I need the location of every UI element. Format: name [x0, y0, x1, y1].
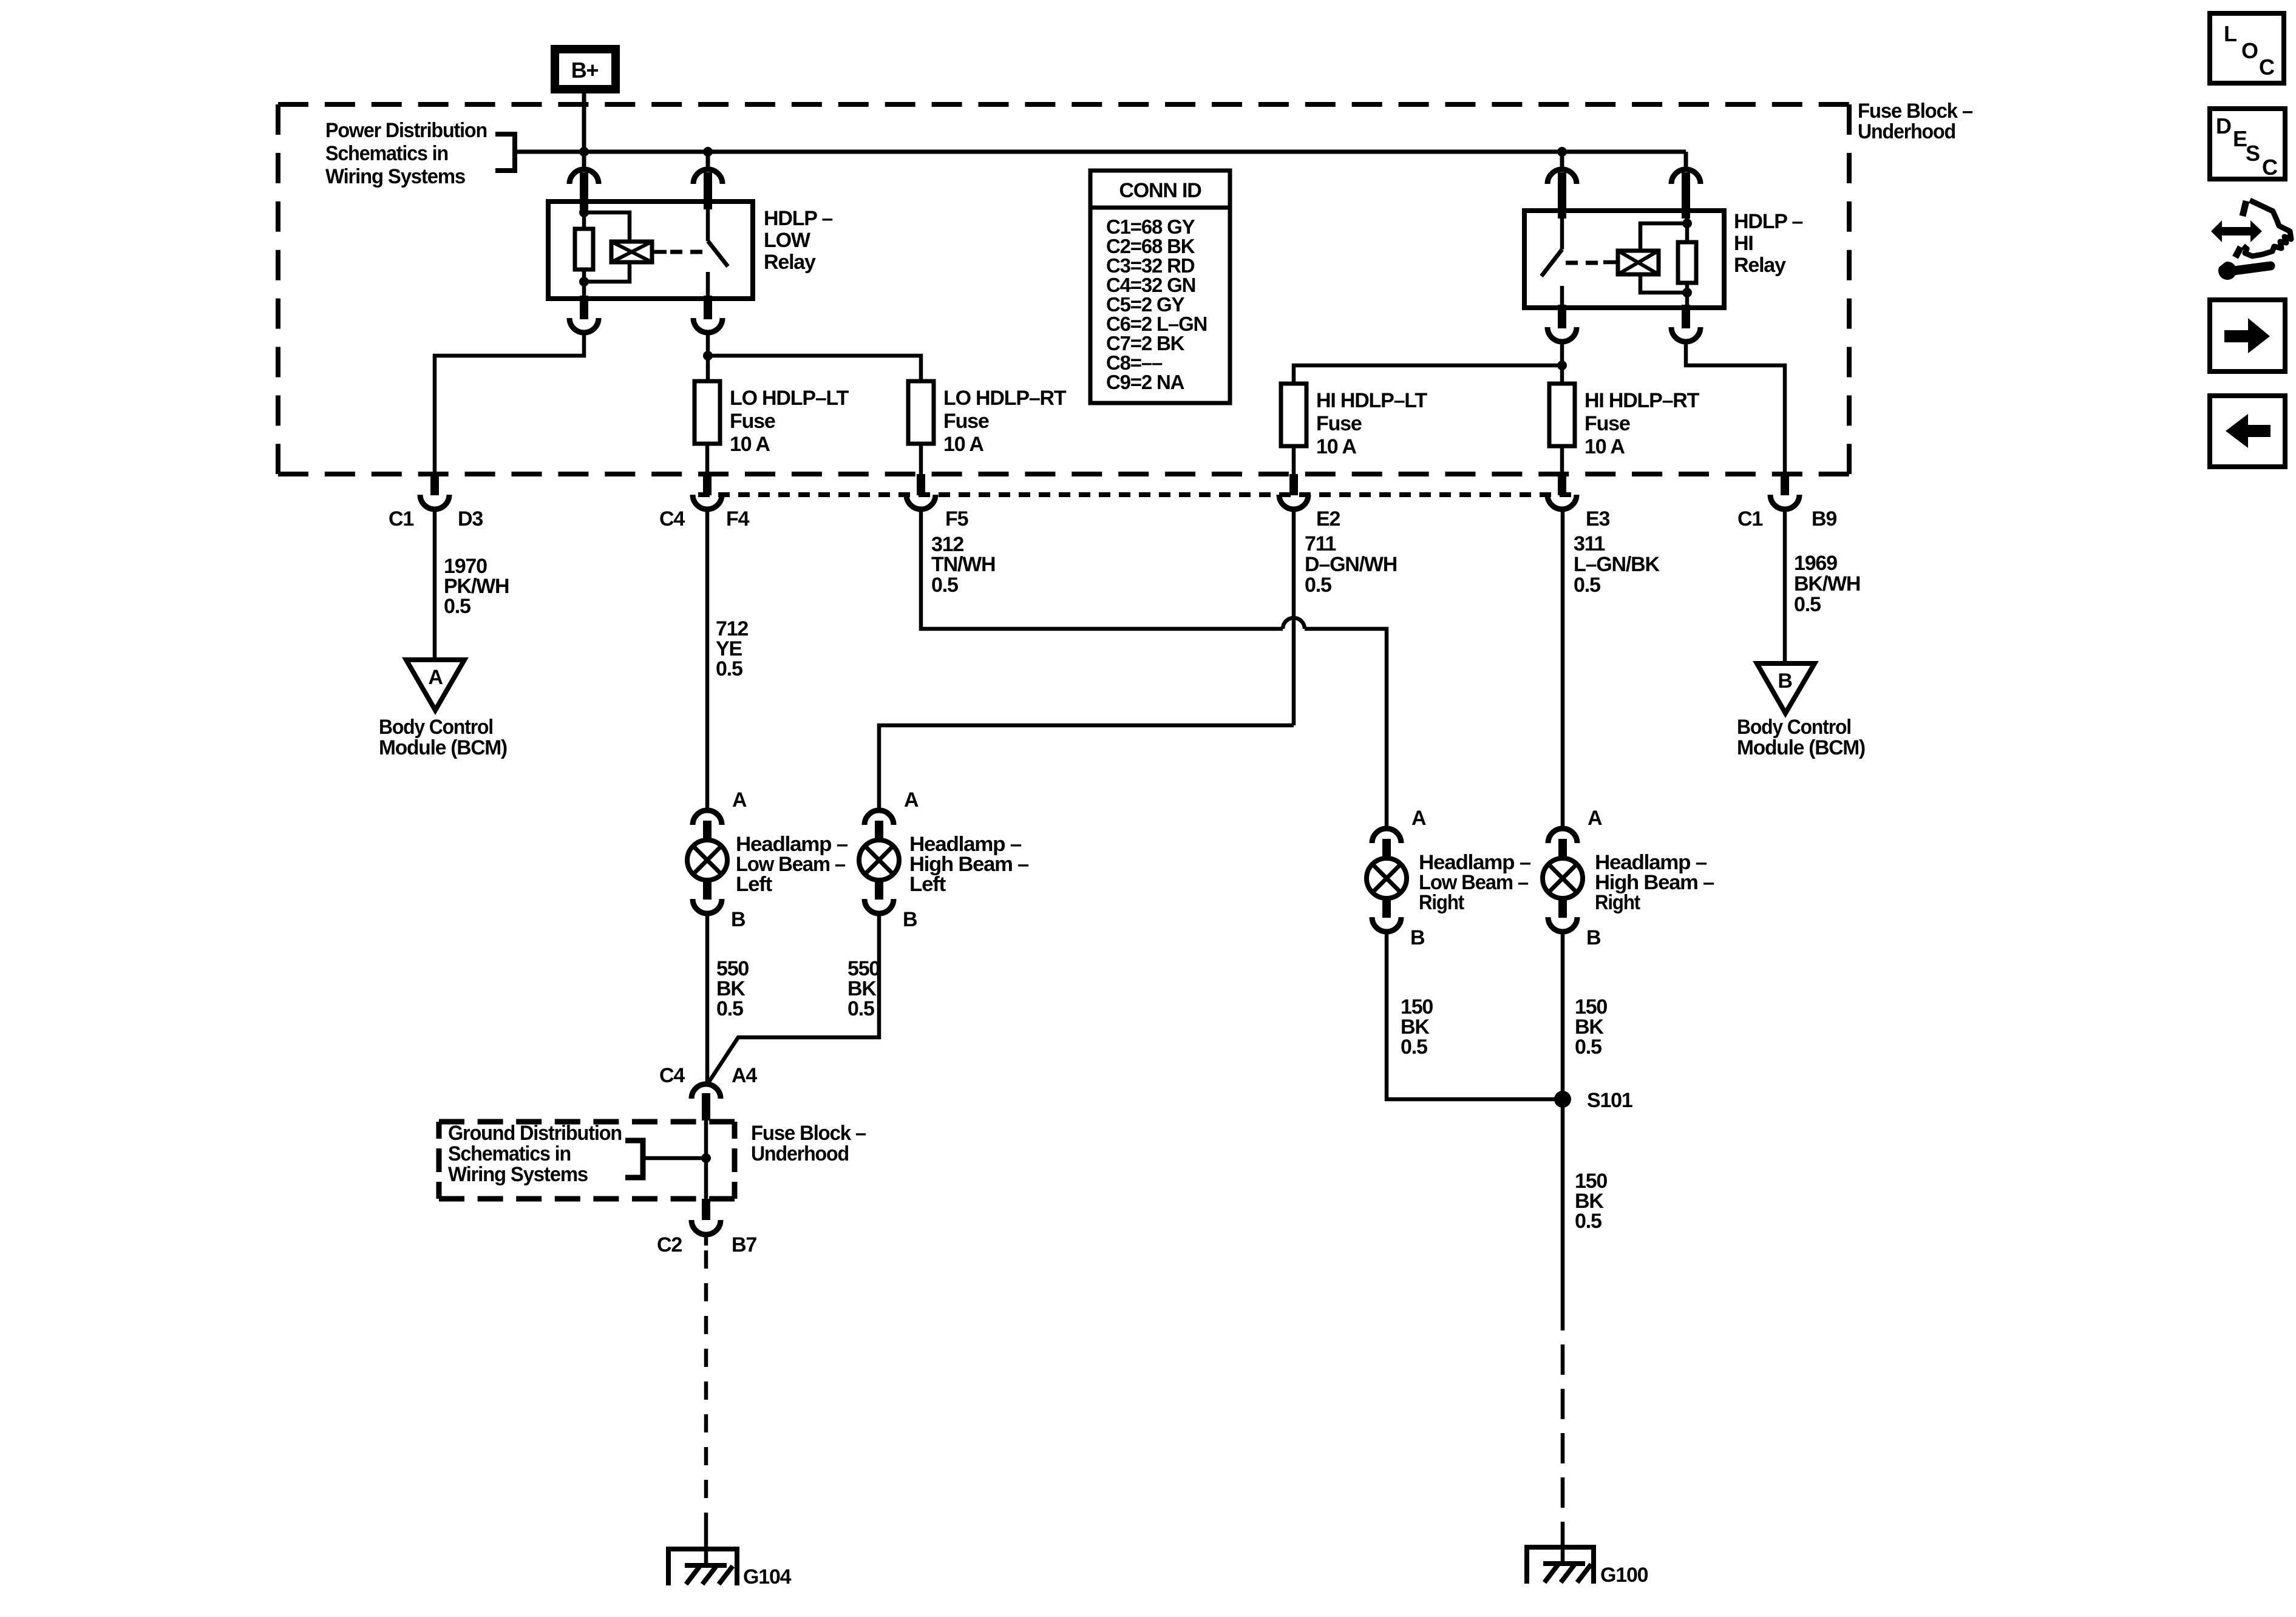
fuse HI HDLP-LT 10A: [1281, 384, 1427, 458]
svg-text:E3: E3: [1586, 507, 1609, 531]
svg-text:B: B: [1778, 670, 1792, 693]
svg-text:C2: C2: [657, 1233, 682, 1256]
splice S101: [1554, 1091, 1571, 1108]
svg-text:Fuse: Fuse: [1584, 412, 1630, 435]
wire label 550 BK 0.5 left: [716, 957, 749, 1020]
resistor in HI relay: [1678, 242, 1696, 283]
svg-text:G100: G100: [1600, 1564, 1648, 1587]
svg-text:D: D: [2216, 114, 2231, 138]
node junction B+ wire: [579, 147, 589, 157]
wire LOW relay coil pin to C1/D3: [435, 333, 584, 474]
svg-text:A: A: [904, 788, 919, 812]
ground G100: [1527, 1547, 1594, 1584]
svg-text:LO HDLP–LT: LO HDLP–LT: [730, 387, 849, 410]
DESC nav icon: [2210, 109, 2285, 180]
HI relay coil-side pin wire: [1685, 211, 1690, 242]
svg-text:10 A: 10 A: [1316, 435, 1356, 458]
CONN ID table: [1090, 171, 1230, 403]
svg-text:Schematics in: Schematics in: [325, 142, 448, 165]
svg-text:B: B: [731, 908, 746, 931]
label HDLP-HI Relay: [1734, 210, 1802, 277]
svg-text:HI HDLP–LT: HI HDLP–LT: [1316, 389, 1427, 412]
label High Beam –: [909, 833, 1028, 896]
wire high beam right B down: [1561, 932, 1565, 1300]
svg-text:HI HDLP–RT: HI HDLP–RT: [1584, 389, 1700, 412]
svg-text:0.5: 0.5: [1575, 1210, 1601, 1233]
dotted connector row line: [698, 492, 1572, 497]
off-page connector B: [1757, 663, 1815, 713]
svg-text:0.5: 0.5: [931, 574, 958, 597]
svg-text:0.5: 0.5: [1305, 574, 1331, 597]
svg-text:0.5: 0.5: [716, 657, 742, 680]
wire 312 F5 down and right: [921, 508, 1283, 629]
switch in HI relay: [1541, 211, 1562, 308]
svg-text:10 A: 10 A: [1584, 435, 1625, 458]
svg-text:F5: F5: [945, 507, 968, 531]
label High Beam –: [1595, 851, 1714, 914]
node junction HI relay switch feed: [1557, 147, 1567, 157]
headlamp high beam right: [1543, 829, 1583, 932]
connector pin: [1279, 474, 1308, 509]
svg-text:Power Distribution: Power Distribution: [325, 119, 487, 142]
node: [579, 277, 589, 286]
svg-text:Fuse: Fuse: [943, 410, 989, 433]
off-page connector A: [406, 660, 464, 710]
node: [1557, 361, 1567, 370]
wire low beam right B to splice: [1387, 932, 1563, 1099]
svg-text:Right: Right: [1595, 891, 1640, 914]
svg-text:S: S: [2246, 141, 2260, 166]
svg-text:Body Control: Body Control: [379, 716, 493, 739]
svg-text:Left: Left: [736, 873, 772, 896]
wire to BCM A: [433, 508, 437, 660]
svg-text:Module (BCM): Module (BCM): [379, 736, 507, 759]
svg-text:HDLP –: HDLP –: [764, 207, 832, 230]
svg-text:L–GN/BK: L–GN/BK: [1574, 553, 1660, 576]
svg-text:0.5: 0.5: [1575, 1036, 1601, 1059]
wire hop over 711: [1283, 618, 1305, 629]
relay coil HI (box with X): [1618, 251, 1659, 274]
svg-text:Body Control: Body Control: [1737, 716, 1851, 739]
wire 711 E2 down: [1292, 508, 1296, 725]
wire label 150 BK 0.5 low right: [1401, 995, 1433, 1059]
svg-text:D3: D3: [458, 507, 483, 531]
label Power Distribution Schematics in Wiring Systems: [325, 119, 487, 188]
svg-text:G104: G104: [743, 1565, 792, 1588]
B+ bus wire: [515, 150, 1686, 154]
label Ground Distribution Schematics in Wiring Systems: [448, 1122, 622, 1186]
svg-text:LO HDLP–RT: LO HDLP–RT: [943, 387, 1067, 410]
wire label 1969 BK/WH 0.5: [1794, 552, 1860, 616]
wire 312 continues to low beam right: [1305, 629, 1387, 827]
fuse LO HDLP-RT 10A: [908, 381, 1067, 456]
svg-text:C: C: [2262, 155, 2278, 180]
wire label 150 BK 0.5 below splice: [1575, 1170, 1607, 1233]
svg-text:B+: B+: [571, 58, 599, 83]
svg-text:Wiring Systems: Wiring Systems: [448, 1163, 588, 1186]
svg-text:Underhood: Underhood: [751, 1142, 849, 1165]
dashed mechanical linkage: [1566, 261, 1600, 265]
svg-text:0.5: 0.5: [716, 997, 743, 1020]
wire label 311 L-GN/BK 0.5: [1574, 532, 1660, 597]
svg-text:Fuse: Fuse: [1316, 412, 1362, 435]
LOC nav icon: [2210, 13, 2284, 83]
dashed mechanical linkage: [670, 250, 704, 254]
label Fuse Block - Underhood (lower): [751, 1122, 866, 1165]
svg-text:Fuse Block –: Fuse Block –: [751, 1122, 866, 1145]
wire branch to LO HDLP-RT fuse: [708, 356, 921, 381]
svg-text:B9: B9: [1812, 507, 1836, 531]
svg-text:B: B: [1586, 926, 1601, 949]
svg-text:BK/WH: BK/WH: [1794, 572, 1860, 595]
bracket for power distribution reference: [495, 134, 515, 171]
wire coil branch: [1640, 274, 1687, 293]
svg-text:10 A: 10 A: [730, 433, 770, 456]
fuse block top connector pins: [569, 169, 599, 209]
wire LOW relay switch pin down: [706, 333, 710, 381]
svg-text:Left: Left: [909, 873, 946, 896]
svg-text:HDLP –: HDLP –: [1734, 210, 1802, 233]
wire label 1970 PK/WH 0.5: [444, 555, 509, 618]
wire coil branch: [584, 212, 630, 242]
wire label 712 YE 0.5: [716, 617, 748, 680]
svg-text:Relay: Relay: [1734, 254, 1786, 277]
label Body Control Module (BCM) left: [379, 716, 507, 759]
svg-text:Fuse Block –: Fuse Block –: [1858, 100, 1972, 123]
svg-text:B7: B7: [732, 1233, 756, 1256]
svg-text:A: A: [1588, 807, 1602, 830]
svg-text:E: E: [2233, 126, 2247, 151]
relay HDLP-LOW box: [548, 202, 753, 299]
hand with wrench nav icon: [2211, 200, 2291, 280]
node junction LOW relay switch feed: [703, 147, 713, 157]
node: [1682, 219, 1692, 228]
wire from B+ down to bus: [582, 93, 586, 169]
label Low Beam –: [736, 833, 847, 896]
fuse LO HDLP-LT 10A: [695, 381, 849, 456]
svg-text:711: 711: [1305, 532, 1336, 555]
switch in LOW relay: [708, 202, 728, 299]
svg-text:1969: 1969: [1794, 552, 1837, 575]
svg-text:Underhood: Underhood: [1858, 120, 1955, 143]
node: [1682, 288, 1692, 297]
wire low beam left B down: [705, 914, 710, 1085]
wire branch to HI HDLP-LT fuse: [1294, 365, 1562, 384]
svg-text:A: A: [428, 666, 443, 689]
svg-text:E2: E2: [1316, 507, 1340, 531]
connector pin: [1547, 474, 1577, 509]
svg-text:F4: F4: [726, 507, 750, 531]
connector pin: [906, 474, 936, 509]
connector pin: [1770, 474, 1799, 509]
wire to BCM B: [1783, 508, 1787, 663]
svg-text:Schematics in: Schematics in: [448, 1142, 571, 1165]
wire through ground fuse block: [704, 1120, 708, 1200]
svg-text:Wiring Systems: Wiring Systems: [325, 165, 465, 188]
ground G104: [668, 1549, 737, 1585]
svg-text:C4: C4: [659, 507, 685, 531]
wire HI relay switch pin down: [1560, 342, 1564, 384]
wire 311 E3 to high beam right: [1561, 508, 1565, 827]
resistor in LOW relay: [575, 229, 593, 269]
bracket ground distribution: [625, 1141, 643, 1178]
wire label 550 BK 0.5 right: [847, 957, 880, 1020]
svg-text:A: A: [732, 788, 747, 812]
node: [579, 208, 589, 217]
svg-text:C: C: [2259, 55, 2275, 80]
svg-text:B: B: [903, 908, 917, 931]
wire label 150 BK 0.5 high right: [1575, 995, 1607, 1059]
dashed wire to G104: [704, 1235, 708, 1246]
svg-text:HI: HI: [1734, 232, 1753, 255]
fuse block underhood dashed box: [278, 104, 1849, 474]
svg-text:Fuse: Fuse: [730, 410, 775, 433]
svg-text:0.5: 0.5: [1574, 574, 1600, 597]
svg-text:A: A: [1411, 807, 1426, 830]
wire 711 left to high beam left: [879, 725, 1294, 809]
svg-text:10 A: 10 A: [943, 433, 983, 456]
wire label 312 TN/WH 0.5: [931, 533, 995, 597]
svg-text:S101: S101: [1587, 1089, 1632, 1112]
headlamp low beam left: [687, 810, 727, 914]
svg-text:0.5: 0.5: [1401, 1036, 1427, 1059]
wire label 711 D-GN/WH 0.5: [1305, 532, 1397, 597]
LOW relay coil-side pin wire: [582, 202, 586, 229]
wire coil to linkage: [652, 250, 667, 254]
wire 712 to low beam left lamp: [705, 508, 710, 809]
svg-text:C1: C1: [1737, 507, 1762, 531]
svg-text:0.5: 0.5: [444, 595, 470, 618]
svg-text:0.5: 0.5: [847, 997, 874, 1020]
label Fuse Block - Underhood (top right): [1858, 100, 1972, 143]
svg-text:C1: C1: [389, 507, 413, 531]
svg-text:D–GN/WH: D–GN/WH: [1305, 553, 1397, 576]
wire: [1292, 446, 1296, 474]
back arrow nav icon: [2210, 396, 2285, 467]
svg-text:TN/WH: TN/WH: [931, 553, 995, 576]
forward arrow nav icon: [2210, 300, 2285, 371]
svg-text:O: O: [2241, 38, 2258, 63]
connector pin: [420, 474, 449, 509]
connector pin: [693, 474, 722, 509]
node: [701, 1153, 711, 1163]
relay HDLP-HI box: [1524, 211, 1724, 308]
wire coil to linkage: [1603, 260, 1618, 265]
svg-text:311: 311: [1574, 532, 1605, 555]
relay coil LOW (box with X): [611, 242, 652, 262]
ground distribution dashed box: [439, 1122, 735, 1199]
wire high beam left B to junction: [707, 914, 879, 1085]
wire HI relay coil pin to C1/B9: [1686, 342, 1785, 474]
svg-text:L: L: [2224, 21, 2237, 46]
wire: [1560, 446, 1564, 474]
connector C4/A4: [691, 1084, 721, 1120]
svg-text:B: B: [1410, 926, 1425, 949]
wire: [705, 444, 710, 474]
svg-text:CONN ID: CONN ID: [1119, 179, 1201, 202]
svg-text:0.5: 0.5: [1794, 593, 1821, 616]
svg-text:Right: Right: [1419, 891, 1464, 914]
wire taps down from bus: [706, 152, 710, 169]
wire bracket to main: [643, 1156, 706, 1161]
svg-text:Module (BCM): Module (BCM): [1737, 736, 1865, 759]
headlamp low beam right: [1367, 829, 1407, 932]
node: [703, 351, 713, 361]
fuse HI HDLP-RT 10A: [1549, 384, 1700, 458]
label HDLP-LOW Relay: [764, 207, 832, 274]
B+ power symbol: [551, 45, 620, 93]
dashed wire to G100: [1561, 1300, 1565, 1531]
svg-text:C4: C4: [659, 1064, 685, 1087]
svg-text:Ground Distribution: Ground Distribution: [448, 1122, 622, 1145]
svg-text:Relay: Relay: [764, 251, 816, 274]
label Body Control Module (BCM) right: [1737, 716, 1865, 759]
connector C2/B7: [691, 1199, 721, 1235]
wire coil branch: [1640, 223, 1687, 251]
svg-text:LOW: LOW: [764, 229, 811, 252]
relay bottom connector pins: [569, 296, 599, 333]
svg-text:A4: A4: [732, 1064, 757, 1087]
svg-text:C9=2 NA: C9=2 NA: [1106, 371, 1184, 393]
label Low Beam –: [1419, 851, 1530, 914]
wire coil branch: [584, 262, 630, 282]
wire: [919, 444, 923, 474]
headlamp high beam left: [859, 810, 899, 914]
